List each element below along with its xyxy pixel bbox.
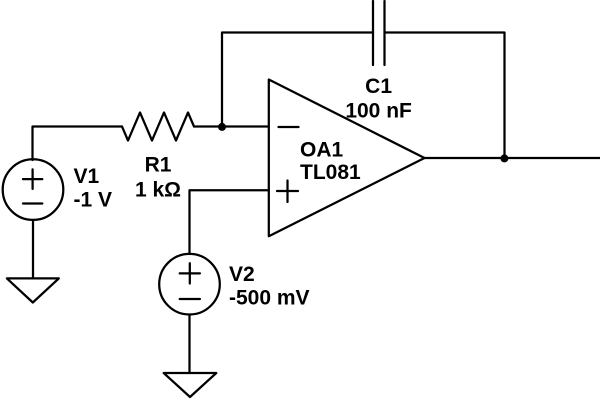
wire resistor to op-amp inverting input <box>194 125 269 127</box>
node at output junction <box>500 154 508 162</box>
op-amp U1 OA1 <box>269 80 425 237</box>
svg-text:TL081: TL081 <box>300 161 361 184</box>
wire V2 bottom to ground <box>188 315 190 373</box>
svg-text:100 nF: 100 nF <box>345 100 412 123</box>
op-amp inverting input minus symbol <box>279 126 299 128</box>
wire V1 top to resistor <box>33 127 123 161</box>
svg-text:OA1: OA1 <box>300 138 344 161</box>
resistor R1 <box>122 113 194 141</box>
wire non-inverting input to V2 <box>190 190 269 254</box>
svg-text:R1: R1 <box>145 154 172 177</box>
capacitor C1 <box>373 1 385 65</box>
voltage source V2 <box>159 254 220 315</box>
wire output <box>425 157 600 159</box>
svg-text:V2: V2 <box>229 263 255 286</box>
svg-text:V1: V1 <box>74 165 100 188</box>
voltage source V1 <box>3 159 64 220</box>
svg-text:1 kΩ: 1 kΩ <box>135 178 181 201</box>
ground below V2 <box>164 373 217 397</box>
ground below V1 <box>7 278 59 302</box>
op-amp non-inverting input plus symbol <box>277 181 298 203</box>
wire feedback left branch <box>222 33 372 127</box>
wire feedback right branch <box>386 33 505 159</box>
svg-text:-1 V: -1 V <box>74 189 113 212</box>
svg-text:-500 mV: -500 mV <box>229 287 310 310</box>
svg-text:C1: C1 <box>365 75 392 98</box>
node at inverting input junction <box>218 123 226 131</box>
wire V1 bottom to ground <box>32 220 34 278</box>
